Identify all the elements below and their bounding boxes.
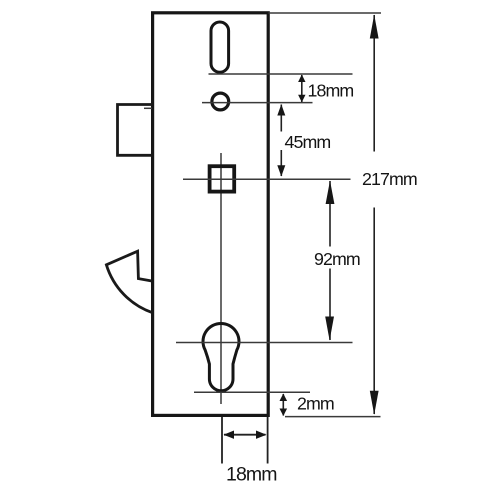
- extension line: bottom of case: [285, 416, 381, 418]
- 217mm dimension line (gap for label): [373, 15, 375, 152]
- extension line: square follower centre: [183, 178, 351, 180]
- top oblong slot: [211, 22, 229, 72]
- extension line: top of case to 217mm dimension: [268, 12, 381, 14]
- 2mm dimension double arrow: [282, 394, 284, 416]
- 45mm dimension line (gap for label): [280, 105, 282, 132]
- extension line: screw hole centre: [202, 102, 313, 104]
- 18mm bottom extension lines: [221, 417, 223, 464]
- extension line: cylinder centre: [176, 342, 353, 344]
- small round screw hole: [212, 93, 229, 110]
- svg-text:2mm: 2mm: [297, 394, 334, 414]
- lock case faceplate rectangle: [153, 13, 269, 416]
- svg-text:92mm: 92mm: [314, 249, 360, 269]
- square spindle follower: [210, 166, 235, 191]
- 92mm arrowheads: [326, 181, 335, 205]
- svg-text:18mm: 18mm: [226, 464, 277, 486]
- euro cylinder cutout: [203, 323, 239, 390]
- 18mm bottom dimension arrow: [224, 434, 266, 436]
- 45mm arrowheads: [277, 104, 285, 115]
- extension line: bottom of cylinder (2mm top): [194, 391, 310, 393]
- svg-text:45mm: 45mm: [285, 132, 331, 152]
- 18mm top dimension line: [301, 75, 303, 102]
- extension line: bottom of oblong slot: [209, 73, 353, 75]
- centre vertical axis line through square follower and cylinder: [220, 153, 222, 404]
- svg-text:217mm: 217mm: [362, 169, 417, 189]
- 217mm arrowheads: [370, 15, 379, 39]
- 92mm dimension line (gap for label): [329, 181, 331, 247]
- 18mm top arrowheads: [298, 75, 305, 83]
- svg-text:18mm: 18mm: [308, 81, 354, 101]
- latch bevel tick: [144, 107, 152, 109]
- hook bolt on left: [106, 251, 152, 313]
- latch bolt on left: [118, 105, 153, 156]
